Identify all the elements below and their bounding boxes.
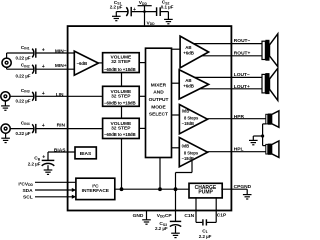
jack LIN input — [1, 92, 10, 101]
svg-text:ROUT−: ROUT− — [234, 38, 251, 44]
svg-text:0dB: 0dB — [182, 144, 190, 149]
capacitor CIN1 — [16, 45, 45, 61]
svg-text:CIN3: CIN3 — [21, 88, 30, 94]
block mixer and output mode select — [146, 48, 172, 157]
wire SDA — [35, 188, 76, 192]
wire HPL — [208, 151, 266, 153]
wire volume3 to mixer — [139, 127, 145, 129]
svg-text:SELECT: SELECT — [149, 111, 168, 117]
capacitor CS2 — [157, 0, 174, 16]
op-amp HP1 HPR — [179, 105, 207, 134]
ground CS3 — [171, 226, 180, 238]
svg-text:0.22 µF: 0.22 µF — [16, 56, 31, 61]
svg-text:AB: AB — [185, 78, 191, 83]
svg-text:+: + — [42, 91, 45, 97]
wire mixer bottom — [159, 158, 161, 190]
svg-text:CIN4: CIN4 — [21, 120, 30, 126]
wire headphone common — [253, 124, 265, 146]
wire LOUT- — [193, 76, 262, 78]
svg-text:INTERFACE: INTERFACE — [82, 188, 110, 194]
svg-text:+: + — [133, 7, 136, 13]
op-amp AB2 LOUT — [179, 70, 208, 99]
svg-text:HPR: HPR — [234, 114, 245, 120]
svg-text:0.1 µF: 0.1 µF — [161, 4, 174, 9]
chip outline U1 — [68, 26, 232, 210]
wire mixer to HP1 — [172, 114, 180, 116]
wire volume control bus — [121, 73, 123, 190]
svg-text:SDA: SDA — [22, 188, 33, 194]
svg-text:32 STEP: 32 STEP — [111, 125, 131, 131]
svg-text:+: + — [42, 155, 45, 161]
capacitor CS3 — [155, 221, 181, 231]
svg-text:C1P: C1P — [217, 212, 227, 218]
svg-text:AB: AB — [185, 45, 191, 50]
svg-text:AND: AND — [153, 89, 164, 95]
svg-text:0.22 µF: 0.22 µF — [16, 131, 31, 136]
svg-text:I²CVDD: I²CVDD — [18, 181, 33, 187]
svg-text:LOUT+: LOUT+ — [234, 84, 250, 90]
svg-text:MIN−: MIN− — [55, 48, 67, 54]
svg-text:+: + — [42, 123, 45, 129]
block BIAS — [75, 147, 96, 159]
op-amp -6dB input amp — [74, 51, 98, 75]
wire HPR — [208, 118, 266, 120]
svg-text:+: + — [42, 64, 45, 70]
block volume control 2 — [103, 86, 140, 106]
op-amp HP2 HPL — [179, 138, 207, 167]
block I2C interface — [76, 178, 115, 199]
wire MIN- — [7, 53, 75, 58]
svg-text:−6dB: −6dB — [77, 61, 88, 66]
svg-text:CPGND: CPGND — [234, 184, 252, 190]
svg-text:+6dB: +6dB — [183, 51, 194, 56]
jack MIN input — [2, 58, 11, 67]
capacitor C1 — [199, 219, 212, 239]
speaker ROUT — [262, 34, 278, 67]
svg-text:−60dB to +18dB: −60dB to +18dB — [104, 132, 136, 137]
svg-text:C1N: C1N — [184, 213, 194, 219]
svg-text:PUMP: PUMP — [198, 190, 213, 196]
wire ROUT- — [194, 43, 262, 45]
svg-text:+6dB: +6dB — [183, 84, 194, 89]
wire I2CVDD — [35, 181, 76, 183]
wire MIN+ — [7, 67, 75, 69]
svg-text:CIN2: CIN2 — [21, 63, 30, 69]
headphone speaker HPL — [266, 141, 279, 158]
svg-text:MIN+: MIN+ — [55, 63, 67, 69]
svg-text:0dB: 0dB — [182, 109, 190, 114]
svg-text:HPL: HPL — [234, 147, 244, 153]
ground headphone — [249, 140, 258, 144]
node headphone common junction — [261, 134, 264, 137]
block volume control 3 — [103, 118, 140, 138]
ground CB — [44, 165, 53, 174]
svg-text:32 STEP: 32 STEP — [111, 59, 131, 65]
wire mixer to AB2 — [172, 82, 180, 84]
headphone speaker HPR — [266, 111, 279, 128]
svg-text:CIN1: CIN1 — [21, 45, 30, 51]
svg-text:LOUT−: LOUT− — [234, 72, 250, 78]
wire mixer to AB1 — [172, 48, 181, 50]
block volume control 1 — [103, 53, 140, 73]
wire ROUT+ — [202, 55, 262, 57]
node vddcp junction — [174, 187, 178, 191]
wire BIAS pin — [48, 152, 75, 160]
wire SCL — [35, 195, 76, 199]
op-amp AB1 ROUT — [180, 36, 209, 68]
svg-text:2.2 µF: 2.2 µF — [199, 234, 212, 239]
capacitor CS1 — [110, 0, 136, 16]
svg-text:LIN: LIN — [56, 92, 64, 98]
capacitor CB — [28, 155, 55, 167]
svg-text:32 STEP: 32 STEP — [111, 94, 131, 100]
wire C1P pin — [207, 197, 216, 222]
jack RIN input — [1, 124, 10, 133]
svg-text:ROUT+: ROUT+ — [234, 50, 251, 56]
svg-text:0.22 µF: 0.22 µF — [16, 99, 31, 104]
wire amp to volume1 — [98, 62, 102, 64]
svg-text:0.22 µF: 0.22 µF — [16, 73, 31, 78]
wire VDDCP pin — [175, 211, 177, 222]
capacitor CIN3 — [16, 88, 45, 104]
svg-text:−60dB to +18dB: −60dB to +18dB — [104, 101, 136, 106]
node bus junction — [120, 187, 124, 191]
svg-text:OUTPUT: OUTPUT — [149, 97, 169, 103]
svg-text:−18dB: −18dB — [182, 156, 194, 161]
ground CPGND — [243, 195, 252, 199]
wire CPGND — [221, 189, 247, 194]
block charge pump — [189, 183, 222, 198]
svg-text:2.2 µF: 2.2 µF — [110, 4, 123, 9]
ground LIN jack — [1, 101, 10, 110]
wire C1N pin — [196, 197, 202, 222]
wire mixer to HP2 — [172, 147, 180, 149]
svg-text:+: + — [42, 48, 45, 54]
ground RIN jack — [1, 133, 10, 142]
capacitor CIN4 — [16, 120, 45, 135]
wire LOUT+ — [200, 88, 262, 90]
wire HP2 to control junction — [176, 161, 193, 211]
svg-text:−60dB to +18dB: −60dB to +18dB — [104, 67, 136, 72]
wire GND pin — [146, 211, 148, 220]
ground CS1 — [112, 16, 121, 20]
svg-text:VDDCP: VDDCP — [157, 213, 173, 219]
svg-text:−18dB: −18dB — [182, 121, 194, 126]
capacitor CIN2 — [16, 63, 45, 79]
svg-text:MODE: MODE — [151, 104, 166, 110]
wire I2C control line — [115, 188, 190, 190]
svg-text:MIXER: MIXER — [151, 82, 167, 88]
svg-text:2.2 µF: 2.2 µF — [155, 226, 168, 231]
svg-text:VDD: VDD — [139, 0, 148, 6]
node VDD junction — [143, 10, 146, 13]
svg-text:RIN: RIN — [57, 123, 66, 129]
wire volume1 to mixer — [139, 62, 145, 64]
wire RIN — [10, 128, 102, 130]
wire LIN — [10, 95, 103, 97]
wire volume2 to mixer — [139, 95, 145, 97]
svg-text:BIAS: BIAS — [54, 147, 66, 153]
ground GND pin — [142, 220, 151, 224]
node mixer junction — [158, 187, 162, 191]
ground CS2 — [164, 19, 173, 23]
svg-text:8 Steps: 8 Steps — [184, 151, 199, 156]
svg-text:2.2 µF: 2.2 µF — [28, 162, 41, 167]
svg-text:SCL: SCL — [23, 195, 33, 201]
svg-text:8 Steps: 8 Steps — [184, 116, 199, 121]
speaker LOUT — [262, 68, 278, 100]
wire VDD rail top — [116, 6, 168, 26]
svg-text:GND: GND — [133, 213, 144, 219]
svg-text:BIAS: BIAS — [80, 151, 92, 157]
